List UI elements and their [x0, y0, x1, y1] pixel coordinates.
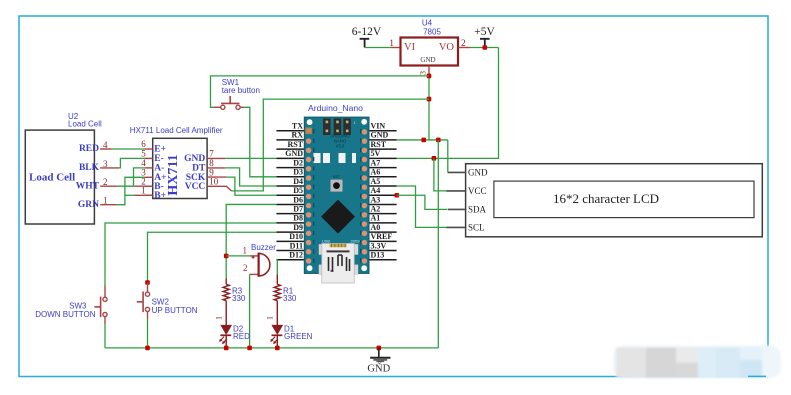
pin stub HX711 E+: [144, 148, 152, 150]
wire HX711 SCK to Nano D5: [226, 177, 276, 195]
wire GRN to A+: [117, 177, 145, 204]
pin A7 (Nano right): [369, 167, 397, 169]
svg-text:A6: A6: [371, 168, 381, 177]
pin GND (LCD): [448, 171, 467, 173]
pin stub BLK: [100, 167, 119, 169]
pin GND (Nano right): [369, 139, 397, 141]
pin SDA (LCD): [448, 208, 467, 210]
svg-text:B+: B+: [154, 191, 166, 201]
power terminal +5V: [480, 39, 490, 48]
wire Nano D12 down to R1: [275, 260, 278, 275]
load cell U2 box: [25, 130, 94, 224]
wire SW1 to Nano D3: [244, 107, 276, 177]
wire 6-12V to U4 VI: [365, 47, 391, 49]
lead R3 to D2: [225, 301, 227, 326]
pin stub HX711 DT: [207, 167, 225, 169]
svg-text:1: 1: [215, 316, 224, 320]
pin A2 (Nano right): [369, 213, 397, 215]
pin D10 (Nano left): [276, 240, 304, 242]
pin SCL (LCD): [446, 226, 466, 228]
wire 5V to LCD VCC: [434, 158, 446, 191]
svg-text:RED: RED: [79, 144, 99, 154]
junction U4 GND / SW1 rail: [427, 74, 432, 79]
svg-text:A5: A5: [371, 177, 381, 186]
junction +5V: [483, 45, 488, 50]
svg-text:RED: RED: [233, 332, 250, 341]
svg-text:GND: GND: [468, 167, 488, 177]
svg-text:GND: GND: [371, 131, 389, 140]
svg-text:USB: USB: [322, 239, 331, 244]
pin stub HX711 SCK: [207, 176, 226, 178]
svg-text:VO: VO: [439, 42, 455, 53]
junction buzzer / rail: [247, 346, 252, 351]
svg-text:VCC: VCC: [185, 182, 206, 192]
pin stub HX711 GND: [207, 157, 225, 159]
svg-text:A7: A7: [371, 158, 381, 167]
svg-text:RST: RST: [333, 175, 341, 179]
svg-text:D4: D4: [293, 177, 303, 186]
svg-text:330: 330: [232, 294, 246, 303]
svg-text:5V: 5V: [371, 149, 381, 158]
svg-text:V3.0: V3.0: [336, 144, 345, 149]
wire Nano D9 to SW2: [148, 232, 277, 282]
svg-text:tare button: tare button: [222, 86, 260, 95]
svg-text:5: 5: [141, 149, 146, 159]
svg-text:HX711 Load Cell Amplifier: HX711 Load Cell Amplifier: [130, 126, 223, 135]
pin D4 (Nano left): [276, 185, 304, 187]
pin VIN (Nano right): [369, 130, 397, 132]
lead R3 top: [225, 278, 227, 284]
wire BLK to E-: [119, 158, 144, 168]
Arduino Nano board U1: [304, 117, 369, 283]
wire HX711 VCC up to GND rail junction: [231, 99, 429, 191]
pin A3 (Nano right): [369, 203, 397, 205]
svg-text:U4: U4: [422, 19, 433, 28]
junction buzzer pin1: [224, 254, 229, 259]
svg-text:GND: GND: [184, 154, 205, 164]
pin stub B- (joins WHT wire): [134, 185, 153, 187]
svg-text:D5: D5: [293, 186, 303, 195]
resistor R3: [223, 284, 229, 300]
junction SW2 / rail: [145, 346, 150, 351]
svg-text:GND: GND: [285, 149, 303, 158]
svg-text:UP BUTTON: UP BUTTON: [152, 306, 198, 315]
pin stub HX711 B+: [144, 194, 152, 196]
wire GND row down to ground rail: [437, 140, 439, 348]
svg-text:GRN: GRN: [78, 200, 99, 210]
wire Nano D6 down to buzzer/R3: [226, 204, 276, 278]
pin stub RED: [100, 148, 111, 150]
switch SW3 DOWN BUTTON: [94, 286, 107, 324]
wire buzzer pin2 to ground rail: [249, 274, 251, 348]
pin A0 (Nano right): [369, 231, 397, 233]
junction SW2 top: [145, 280, 150, 285]
pin stub U4 GND pin3: [428, 66, 430, 76]
svg-text:HX711: HX711: [166, 154, 181, 195]
svg-text:VCC: VCC: [468, 186, 487, 196]
pin stub WHT: [100, 185, 118, 187]
lead R1 to D1: [276, 301, 278, 326]
svg-text:3: 3: [419, 71, 428, 75]
junction ground symbol / rail: [377, 346, 382, 351]
svg-text:D2: D2: [293, 158, 303, 167]
ground: [370, 349, 390, 364]
junction D2 / rail: [224, 346, 229, 351]
voltage regulator U4 7805: [401, 38, 459, 66]
svg-text:A3: A3: [371, 195, 381, 204]
svg-text:1: 1: [389, 39, 394, 49]
HX711 amplifier U3 box: [153, 138, 207, 198]
resistor R1: [274, 284, 280, 300]
pin stub HX711 VCC: [207, 186, 231, 191]
junction D1 / rail: [275, 346, 280, 351]
svg-text:Buzzer: Buzzer: [251, 243, 276, 252]
power terminal 6-12V: [360, 39, 370, 48]
pin stub HX711 A+: [144, 176, 152, 178]
pin stub HX711 A-: [144, 167, 152, 169]
pin D11 (Nano left): [276, 250, 304, 252]
wire GND row down to LCD GND: [447, 140, 449, 172]
wire SW3 to ground rail: [104, 324, 106, 348]
svg-text:D13: D13: [371, 251, 385, 260]
pin A5 (Nano right): [369, 185, 397, 187]
pin D9 (Nano left): [276, 231, 304, 233]
svg-text:Load Cell: Load Cell: [29, 172, 75, 184]
pin D7 (Nano left): [276, 213, 304, 215]
wire RED to E+: [112, 148, 145, 150]
wire Nano A4 to LCD SDA: [397, 195, 448, 209]
pin RX (Nano left): [276, 139, 304, 141]
svg-text:1: 1: [243, 246, 248, 256]
pin D13 (Nano right): [369, 259, 397, 261]
svg-text:RST: RST: [371, 140, 387, 149]
junction GND row b: [436, 138, 441, 143]
switch SW2 UP BUTTON: [137, 283, 150, 319]
pin stub GRN: [100, 204, 117, 206]
pin VREF (Nano right): [369, 240, 397, 242]
svg-text:BLK: BLK: [79, 163, 100, 173]
pin GND (Nano left): [276, 157, 304, 159]
svg-text:A0: A0: [371, 223, 381, 232]
svg-text:Load Cell: Load Cell: [68, 120, 102, 129]
svg-text:7805: 7805: [423, 28, 441, 37]
svg-text:D6: D6: [293, 195, 303, 204]
wire SW1 left to GND rail: [211, 76, 430, 107]
buzzer BZ1: [249, 253, 270, 277]
svg-text:D7: D7: [293, 204, 303, 213]
pin D5 (Nano left): [276, 194, 304, 196]
svg-text:330: 330: [283, 294, 297, 303]
pin A6 (Nano right): [369, 176, 397, 178]
wire Nano GND row: [397, 139, 448, 141]
svg-text:RST: RST: [287, 140, 303, 149]
wire U4 GND down to Nano GND row: [428, 76, 430, 140]
svg-text:D3: D3: [293, 168, 303, 177]
pin D6 (Nano left): [276, 203, 304, 205]
junction 5V row: [432, 156, 437, 161]
svg-text:E-: E-: [154, 154, 164, 164]
junction GND row a: [421, 138, 426, 143]
wire WHT to A-: [118, 168, 145, 186]
watermark blur (decorative): [613, 346, 781, 379]
pin stub HX711 B-: [144, 185, 152, 187]
svg-text:7: 7: [209, 149, 214, 159]
svg-text:WHT: WHT: [76, 181, 100, 191]
wire SW2 to ground rail: [147, 319, 149, 348]
svg-text:D11: D11: [290, 241, 303, 250]
svg-text:D8: D8: [293, 214, 303, 223]
svg-text:SCL: SCL: [468, 222, 485, 232]
svg-text:16*2 character LCD: 16*2 character LCD: [553, 191, 659, 206]
svg-text:A2: A2: [371, 204, 381, 213]
junction A4 pin: [395, 193, 400, 198]
pin D12 (Nano left): [276, 259, 304, 261]
svg-text:GND: GND: [420, 56, 435, 64]
svg-text:A4: A4: [371, 186, 381, 195]
svg-text:GND: GND: [367, 363, 390, 374]
wire HX711 GND to Nano GND: [225, 157, 276, 159]
wire +5V rail down to Nano 5V row: [397, 48, 499, 159]
pin 3.3V (Nano right): [369, 250, 397, 252]
pin A4 (Nano right): [369, 194, 397, 196]
svg-text:6-12V: 6-12V: [352, 26, 382, 38]
svg-text:2: 2: [243, 263, 248, 273]
pin stub U4 pin1: [391, 47, 401, 49]
svg-text:TX: TX: [292, 122, 303, 131]
wire U4 VO to +5V rail: [470, 47, 499, 49]
svg-text:D9: D9: [293, 223, 303, 232]
wire Nano D8 to SW3: [105, 223, 276, 286]
pin stub HX711 E-: [144, 157, 152, 159]
pin stub B+: [134, 194, 153, 196]
pin VCC (LCD): [446, 190, 466, 192]
wire to buzzer pin1: [226, 255, 249, 257]
LED D2 RED: [219, 325, 231, 344]
wire Nano A5 to LCD SCL: [397, 186, 447, 227]
pin RST (Nano right): [369, 148, 397, 150]
svg-text:RX: RX: [291, 131, 303, 140]
wire ground rail: [105, 347, 438, 349]
svg-text:VI: VI: [404, 42, 416, 53]
switch SW1 tare button: [213, 96, 244, 109]
wire HX711 DT to Nano D4: [225, 168, 276, 186]
svg-text:1: 1: [266, 316, 275, 320]
junction GND rail / HX711 VCC wire: [427, 97, 432, 102]
svg-text:1: 1: [141, 186, 146, 196]
pin 5V (Nano right): [369, 157, 397, 159]
svg-text:2009: 2009: [351, 239, 361, 244]
svg-text:VREF: VREF: [371, 232, 393, 241]
pin RST (Nano left): [276, 148, 304, 150]
pin A1 (Nano right): [369, 222, 397, 224]
pin D8 (Nano left): [276, 222, 304, 224]
svg-text:SDA: SDA: [468, 204, 487, 214]
svg-text:+5V: +5V: [474, 26, 495, 38]
pin D2 (Nano left): [276, 167, 304, 169]
svg-text:VIN: VIN: [371, 122, 386, 131]
pin stub U4 pin2: [458, 47, 470, 49]
svg-text:10: 10: [209, 177, 219, 187]
lead R1 top: [276, 275, 278, 285]
svg-text:D10: D10: [289, 232, 303, 241]
svg-text:3.3V: 3.3V: [371, 241, 387, 250]
LED D1 GREEN: [270, 325, 282, 344]
pin D3 (Nano left): [276, 176, 304, 178]
svg-text:DOWN BUTTON: DOWN BUTTON: [35, 310, 96, 319]
svg-text:D12: D12: [289, 251, 303, 260]
lead D1 to ground rail: [276, 335, 278, 348]
wire branch to B+: [125, 194, 134, 196]
svg-text:A1: A1: [371, 214, 381, 223]
lead D2 to ground rail: [225, 335, 227, 348]
pin TX (Nano left): [276, 130, 304, 132]
svg-text:GREEN: GREEN: [284, 332, 313, 341]
LCD module LCD1 16*2 character LCD: [466, 164, 763, 237]
svg-text:Arduino_Nano: Arduino_Nano: [308, 103, 363, 113]
